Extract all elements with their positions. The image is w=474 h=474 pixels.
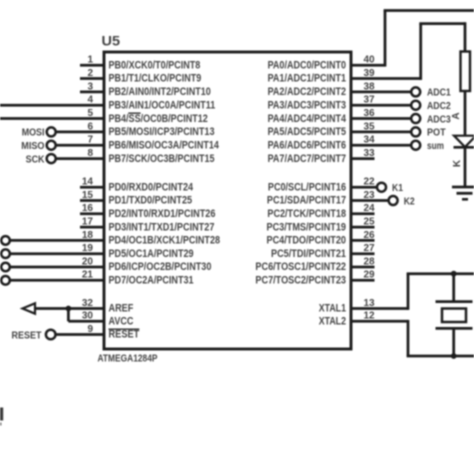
terminal node PD4 xyxy=(1,236,10,245)
pin number 34 xyxy=(364,135,376,146)
pin name label PA4/ADC4/PCINT4 xyxy=(268,113,346,125)
svg-text:13: 13 xyxy=(364,298,376,309)
wire net PA1 to resistor R1 xyxy=(419,22,465,80)
svg-text:15: 15 xyxy=(82,190,94,201)
svg-text:ADC1: ADC1 xyxy=(427,87,451,99)
pin number 26 xyxy=(364,230,376,241)
pin name label PD1/TXD0/PCINT25 xyxy=(109,195,193,207)
pin number 20 xyxy=(82,256,94,267)
svg-text:RESET: RESET xyxy=(109,329,140,341)
svg-text:18: 18 xyxy=(82,230,94,241)
pin name label PC1/SDA/PCINT17 xyxy=(267,195,346,207)
wire crystal top lead xyxy=(452,274,455,302)
svg-text:PA0/ADC0/PCINT0: PA0/ADC0/PCINT0 xyxy=(268,59,346,71)
wire pin 1 (PB0) xyxy=(80,64,104,67)
pin name label PB2/AIN0/INT2/PCINT10 xyxy=(109,86,211,98)
pin name label PB0/XCK0/T0/PCINT8 xyxy=(109,59,201,71)
svg-text:PC0/SCL/PCINT16: PC0/SCL/PCINT16 xyxy=(268,181,346,193)
svg-text:39: 39 xyxy=(364,68,376,79)
pin name label PC7/TOSC2/PCINT23 xyxy=(255,275,346,287)
wire pin 34 (PA6) xyxy=(351,144,411,147)
pin number 15 xyxy=(82,190,94,201)
svg-text:K1: K1 xyxy=(392,182,403,194)
pin name label PB6/MISO/OC3A/PCINT14 xyxy=(109,139,219,151)
wire pin 38 (PA2) xyxy=(351,91,411,94)
terminal node PD7 xyxy=(1,276,10,285)
pin number 9 xyxy=(87,324,93,335)
svg-text:29: 29 xyxy=(364,270,376,281)
pin name label PB5/MOSI/ICP3/PCINT13 xyxy=(109,126,215,138)
pin name label PB1/T1/CLKO/PCINT9 xyxy=(109,73,202,85)
pin name label PA6/ADC6/PCINT6 xyxy=(268,139,346,151)
microcontroller U5 ATMEGA1284P body xyxy=(104,52,351,349)
svg-text:ADC3: ADC3 xyxy=(427,113,451,125)
svg-text:5: 5 xyxy=(87,108,93,119)
wire pin 16 (PD2) xyxy=(80,212,104,215)
pin number 13 xyxy=(364,298,376,309)
pin number 39 xyxy=(364,68,376,79)
wire pin 15 (PD1) xyxy=(80,199,104,202)
svg-text:32: 32 xyxy=(82,298,94,309)
pin name label AVCC xyxy=(109,316,134,328)
pin name label RESET (overline) xyxy=(109,329,140,341)
pin number 37 xyxy=(364,95,376,106)
crystal X1 xyxy=(436,302,473,329)
wire pin 22 (PC0) xyxy=(351,186,377,189)
pin number 19 xyxy=(82,243,94,254)
svg-text:K2: K2 xyxy=(404,195,415,207)
wire pin 8 (PB7) xyxy=(56,157,104,160)
svg-text:PA3/ADC3/PCINT3: PA3/ADC3/PCINT3 xyxy=(268,99,346,111)
svg-text:30: 30 xyxy=(82,311,94,322)
svg-text:ATMEGA1284P: ATMEGA1284P xyxy=(98,353,158,365)
svg-text:27: 27 xyxy=(364,243,376,254)
wire pin 19 (PD5) xyxy=(10,252,105,255)
svg-text:36: 36 xyxy=(364,108,376,119)
svg-text:24: 24 xyxy=(364,203,376,214)
wire pin 28 (PC6) xyxy=(351,266,375,269)
svg-text:PC3/TMS/PCINT19: PC3/TMS/PCINT19 xyxy=(267,221,347,233)
part value ATMEGA1284P xyxy=(98,353,158,365)
terminal POT xyxy=(411,127,446,139)
svg-text:RESET: RESET xyxy=(12,329,42,341)
svg-text:1: 1 xyxy=(87,55,93,66)
pin number 21 xyxy=(82,270,94,281)
wire pin 20 (PD6) xyxy=(10,266,105,269)
wire XTAL2 net to crystal bottom rail xyxy=(407,320,474,356)
svg-text:PC4/TDO/PCINT20: PC4/TDO/PCINT20 xyxy=(267,235,347,247)
svg-text:U5: U5 xyxy=(102,33,121,49)
wire RESET (pin 9) xyxy=(56,333,105,336)
svg-text:PB1/T1/CLKO/PCINT9: PB1/T1/CLKO/PCINT9 xyxy=(109,73,202,85)
wire pin 7 (PB6) xyxy=(56,144,104,147)
terminal ADC2 xyxy=(411,100,451,112)
svg-text:PD7/OC2A/PCINT31: PD7/OC2A/PCINT31 xyxy=(109,275,194,287)
pin name label PD4/OC1B/XCK1/PCINT28 xyxy=(109,235,221,247)
svg-text:PB3/AIN1/OC0A/PCINT11: PB3/AIN1/OC0A/PCINT11 xyxy=(109,99,216,111)
wire pin 25 (PC3) xyxy=(351,226,375,229)
pin number 14 xyxy=(82,177,94,188)
svg-text:PD3/INT1/TXD1/PCINT27: PD3/INT1/TXD1/PCINT27 xyxy=(109,221,215,233)
svg-text:AREF: AREF xyxy=(109,303,134,315)
ground symbol xyxy=(452,187,474,199)
junction dot crystal top xyxy=(451,271,457,277)
svg-text:PB2/AIN0/INT2/PCINT10: PB2/AIN0/INT2/PCINT10 xyxy=(109,86,211,98)
svg-text:16: 16 xyxy=(82,203,94,214)
pin number 5 xyxy=(87,108,93,119)
pin name label PB3/AIN1/OC0A/PCINT11 xyxy=(109,99,216,111)
pin name label PA0/ADC0/PCINT0 xyxy=(268,59,346,71)
svg-text:PA7/ADC7/PCINT7: PA7/ADC7/PCINT7 xyxy=(268,153,346,165)
svg-text:PD4/OC1B/XCK1/PCINT28: PD4/OC1B/XCK1/PCINT28 xyxy=(109,235,221,247)
pin name label XTAL1 xyxy=(319,303,346,315)
svg-text:20: 20 xyxy=(82,256,94,267)
svg-text:6: 6 xyxy=(87,121,93,132)
pin number 4 xyxy=(87,95,93,106)
svg-text:PB4/SS/OC0B/PCINT12: PB4/SS/OC0B/PCINT12 xyxy=(109,113,208,125)
clipped text fragment at left edge xyxy=(0,408,3,426)
label RESET xyxy=(12,329,42,341)
pin number 30 xyxy=(82,311,94,322)
wire pin 12 XTAL2 xyxy=(351,320,408,323)
svg-text:PD1/TXD0/PCINT25: PD1/TXD0/PCINT25 xyxy=(109,195,193,207)
svg-text:35: 35 xyxy=(364,121,376,132)
svg-text:PA1/ADC1/PCINT1: PA1/ADC1/PCINT1 xyxy=(268,73,346,85)
wire crystal bottom lead xyxy=(452,328,455,356)
label K (cathode) xyxy=(452,159,463,167)
pin name label PD3/INT1/TXD1/PCINT27 xyxy=(109,221,215,233)
pin name label PD0/RXD0/PCINT24 xyxy=(109,181,194,193)
svg-text:34: 34 xyxy=(364,135,376,146)
pin name label PA2/ADC2/PCINT2 xyxy=(268,86,346,98)
svg-text:K: K xyxy=(452,159,463,167)
svg-text:PD5/OC1A/PCINT29: PD5/OC1A/PCINT29 xyxy=(109,248,194,260)
pin number 6 xyxy=(87,121,93,132)
pin number 2 xyxy=(87,68,93,79)
svg-text:PC5/TDI/PCINT21: PC5/TDI/PCINT21 xyxy=(271,248,346,260)
pin number 16 xyxy=(82,203,94,214)
wire pin 39 (PA1) xyxy=(351,77,421,80)
pin name label PD7/OC2A/PCINT31 xyxy=(109,275,194,287)
svg-text:PA6/ADC6/PCINT6: PA6/ADC6/PCINT6 xyxy=(268,139,346,151)
wire pin 4 (PB3) xyxy=(0,104,104,107)
svg-text:sum: sum xyxy=(427,140,444,152)
wire AVCC (pin 30) xyxy=(68,309,104,322)
svg-text:PC6/TOSC1/PCINT22: PC6/TOSC1/PCINT22 xyxy=(255,261,346,273)
svg-text:PC1/SDA/PCINT17: PC1/SDA/PCINT17 xyxy=(267,195,346,207)
svg-text:PA2/ADC2/PCINT2: PA2/ADC2/PCINT2 xyxy=(268,86,346,98)
svg-text:MISO: MISO xyxy=(21,140,44,152)
label A (anode) xyxy=(451,112,462,119)
pin name label PC2/TCK/PCINT18 xyxy=(267,208,346,220)
wire pin 40 (PA0) xyxy=(351,64,385,67)
svg-text:8: 8 xyxy=(87,148,93,159)
svg-text:AVCC: AVCC xyxy=(109,316,134,328)
svg-text:23: 23 xyxy=(364,190,376,201)
terminal RESET xyxy=(46,330,56,340)
svg-text:PD6/ICP/OC2B/PCINT30: PD6/ICP/OC2B/PCINT30 xyxy=(109,261,212,273)
svg-text:PB0/XCK0/T0/PCINT8: PB0/XCK0/T0/PCINT8 xyxy=(109,59,201,71)
pin number 32 xyxy=(82,298,94,309)
terminal K1 xyxy=(377,182,403,194)
wire XTAL1 net to crystal top rail xyxy=(407,274,474,310)
pin name label PA3/ADC3/PCINT3 xyxy=(268,99,346,111)
pin name label AREF xyxy=(109,303,134,315)
wire cathode to ground xyxy=(464,147,467,187)
pin name label PD6/ICP/OC2B/PCINT30 xyxy=(109,261,212,273)
svg-text:XTAL2: XTAL2 xyxy=(319,316,346,328)
wire pin 5 (PB4) xyxy=(0,117,104,120)
pin number 29 xyxy=(364,270,376,281)
terminal node PD6 xyxy=(1,263,10,272)
svg-text:28: 28 xyxy=(364,256,376,267)
pin number 33 xyxy=(364,148,376,159)
svg-text:PB7/SCK/OC3B/PCINT15: PB7/SCK/OC3B/PCINT15 xyxy=(109,153,215,165)
pin number 12 xyxy=(364,311,376,322)
svg-text:PC2/TCK/PCINT18: PC2/TCK/PCINT18 xyxy=(267,208,346,220)
pin name label XTAL2 xyxy=(319,316,346,328)
svg-text:26: 26 xyxy=(364,230,376,241)
svg-text:PA5/ADC5/PCINT5: PA5/ADC5/PCINT5 xyxy=(268,126,346,138)
svg-text:21: 21 xyxy=(82,270,94,281)
wire pin 24 (PC2) xyxy=(351,212,375,215)
wire resistor to LED anode xyxy=(464,91,467,136)
svg-text:12: 12 xyxy=(364,311,376,322)
svg-text:7: 7 xyxy=(87,135,93,146)
wire pin 18 (PD4) xyxy=(10,239,105,242)
pin number 3 xyxy=(87,81,93,92)
wire pin 26 (PC4) xyxy=(351,239,375,242)
svg-text:40: 40 xyxy=(364,55,376,66)
pin number 25 xyxy=(364,217,376,228)
svg-text:9: 9 xyxy=(87,324,93,335)
svg-text:4: 4 xyxy=(87,95,93,106)
svg-text:ADC2: ADC2 xyxy=(427,100,451,112)
pin number 24 xyxy=(364,203,376,214)
terminal MISO xyxy=(21,140,55,152)
wire net PA0 to top edge xyxy=(384,11,474,67)
terminal sum xyxy=(411,140,444,152)
wire pin 13 XTAL1 xyxy=(351,307,408,310)
pin number 7 xyxy=(87,135,93,146)
pin number 23 xyxy=(364,190,376,201)
svg-text:A: A xyxy=(451,112,462,119)
terminal node PD5 xyxy=(1,249,10,258)
terminal SCK xyxy=(26,153,56,165)
pin number 17 xyxy=(82,217,94,228)
wire pin 21 (PD7) xyxy=(10,279,105,282)
pin name label PA5/ADC5/PCINT5 xyxy=(268,126,346,138)
pin name label PC4/TDO/PCINT20 xyxy=(267,235,347,247)
pin name label PD2/INT0/RXD1/PCINT26 xyxy=(109,208,216,220)
pin number 8 xyxy=(87,148,93,159)
wire pin 35 (PA5) xyxy=(351,131,411,134)
svg-text:PC7/TOSC2/PCINT23: PC7/TOSC2/PCINT23 xyxy=(255,275,346,287)
pin name label PA1/ADC1/PCINT1 xyxy=(268,73,346,85)
junction dot AREF/AVCC xyxy=(66,306,72,312)
svg-text:22: 22 xyxy=(364,177,376,188)
pin number 18 xyxy=(82,230,94,241)
diode D1 (LED) xyxy=(454,136,474,148)
svg-text:37: 37 xyxy=(364,95,376,106)
terminal ADC1 xyxy=(411,87,451,99)
svg-text:33: 33 xyxy=(364,148,376,159)
pin name label PB4/SS/OC0B/PCINT12 xyxy=(109,113,208,125)
wire AREF (pin 32) xyxy=(34,307,105,310)
pin number 28 xyxy=(364,256,376,267)
svg-text:PD0/RXD0/PCINT24: PD0/RXD0/PCINT24 xyxy=(109,181,194,193)
wire pin 14 (PD0) xyxy=(80,186,104,189)
pin number 38 xyxy=(364,81,376,92)
svg-text:2: 2 xyxy=(87,68,93,79)
pin number 36 xyxy=(364,108,376,119)
svg-text:PB6/MISO/OC3A/PCINT14: PB6/MISO/OC3A/PCINT14 xyxy=(109,139,219,151)
wire pin 23 (PC1) xyxy=(351,199,389,202)
svg-text:3: 3 xyxy=(87,81,93,92)
terminal K2 xyxy=(389,195,415,207)
wire pin 36 (PA4) xyxy=(351,117,411,120)
svg-text:PD2/INT0/RXD1/PCINT26: PD2/INT0/RXD1/PCINT26 xyxy=(109,208,216,220)
pin name label PC6/TOSC1/PCINT22 xyxy=(255,261,346,273)
svg-text:XTAL1: XTAL1 xyxy=(319,303,346,315)
resistor R1 xyxy=(461,52,471,92)
pin name label PC3/TMS/PCINT19 xyxy=(267,221,347,233)
wire pin 27 (PC5) xyxy=(351,252,375,255)
svg-text:19: 19 xyxy=(82,243,94,254)
pin name label PD5/OC1A/PCINT29 xyxy=(109,248,194,260)
svg-text:14: 14 xyxy=(82,177,94,188)
pin number 22 xyxy=(364,177,376,188)
pin name label PB7/SCK/OC3B/PCINT15 xyxy=(109,153,215,165)
svg-text:SCK: SCK xyxy=(26,153,45,165)
arrow terminal AREF xyxy=(23,303,36,313)
pin name label PC5/TDI/PCINT21 xyxy=(271,248,346,260)
svg-text:PA4/ADC4/PCINT4: PA4/ADC4/PCINT4 xyxy=(268,113,346,125)
wire pin 6 (PB5) xyxy=(56,131,104,134)
wire pin 37 (PA3) xyxy=(351,104,411,107)
pin name label PA7/ADC7/PCINT7 xyxy=(268,153,346,165)
reference designator U5 xyxy=(102,33,121,49)
wire pin 3 (PB2) xyxy=(80,91,104,94)
pin number 1 xyxy=(87,55,93,66)
pin number 40 xyxy=(364,55,376,66)
wire pin 29 (PC7) xyxy=(351,279,375,282)
pin number 27 xyxy=(364,243,376,254)
pin number 35 xyxy=(364,121,376,132)
svg-text:POT: POT xyxy=(427,127,446,139)
junction dot crystal bottom xyxy=(451,353,457,359)
svg-text:38: 38 xyxy=(364,81,376,92)
svg-text:25: 25 xyxy=(364,217,376,228)
terminal ADC3 xyxy=(411,113,451,125)
wire pin 17 (PD3) xyxy=(80,226,104,229)
svg-text:17: 17 xyxy=(82,217,94,228)
pin name label PC0/SCL/PCINT16 xyxy=(268,181,346,193)
wire pin 2 (PB1) xyxy=(80,77,104,80)
svg-text:MOSI: MOSI xyxy=(22,127,45,139)
wire pin 33 (PA7) xyxy=(351,157,375,160)
svg-text:PB5/MOSI/ICP3/PCINT13: PB5/MOSI/ICP3/PCINT13 xyxy=(109,126,215,138)
terminal MOSI xyxy=(22,127,56,139)
